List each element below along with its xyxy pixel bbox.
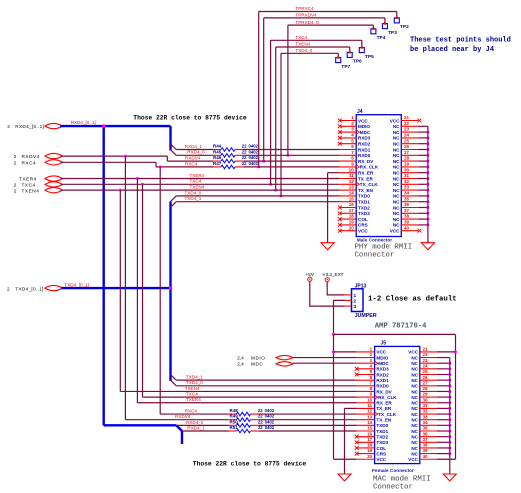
svg-text:RXC4: RXC4 (185, 161, 198, 166)
wire TXD4_0 bottom wire (176, 385, 356, 387)
wire TXER4 wire (61, 178, 340, 180)
svg-text:NC: NC (411, 372, 418, 377)
svg-text:JP13: JP13 (355, 284, 367, 290)
svg-text:1-2 Close as default: 1-2 Close as default (368, 296, 457, 304)
J4 pin 10 stub (340, 172, 356, 174)
J5 pin 30 stub (420, 402, 437, 404)
J5 pin 29 junction (448, 396, 451, 399)
svg-text:RXC4: RXC4 (22, 160, 37, 165)
J4 pin 29 stub (401, 166, 418, 168)
J5 pin 7 stub (357, 385, 375, 387)
J5 pin 11 stub (357, 407, 375, 409)
svg-text:38: 38 (404, 214, 410, 219)
wire RXDV4 bottom lead-out (251, 419, 260, 421)
wire TXD4_1 top wire (176, 201, 339, 203)
wire TXD4_1 bottom wire (176, 379, 356, 381)
bus A bottom end (181, 431, 183, 444)
svg-text:J4: J4 (357, 109, 363, 115)
resistor R46 (221, 159, 235, 163)
junction VCC at J5 pin1 (332, 350, 335, 353)
J5 pin 23 stub (420, 362, 437, 364)
svg-text:RXD4_0: RXD4_0 (186, 420, 204, 425)
svg-text:25: 25 (423, 369, 429, 374)
svg-text:RXD1: RXD1 (376, 378, 389, 383)
svg-text:VCC: VCC (408, 457, 418, 462)
bus RXD4 horizontal (60, 125, 170, 127)
J4 pin 5 no-connect X (338, 142, 342, 146)
svg-text:2: 2 (14, 182, 17, 187)
J4 pin 19 no-connect X (338, 223, 342, 227)
svg-text:22: 22 (258, 419, 263, 424)
wire TXC4 testpoint horizontal (271, 39, 362, 41)
junction TPRXDV4-RXDV4 (262, 160, 265, 163)
port 2,4 MDIO (276, 355, 293, 359)
svg-text:TXD4_[0..1]: TXD4_[0..1] (15, 286, 43, 291)
J4 pin 6 stub (340, 149, 356, 151)
port 2 RXD4_[0..1] (45, 123, 63, 128)
J4 pin 24 stub (401, 137, 418, 139)
svg-text:27: 27 (404, 150, 410, 155)
svg-text:19: 19 (367, 448, 373, 453)
svg-text:11: 11 (367, 403, 372, 408)
wire RXC4 bottom lead-out (251, 413, 260, 415)
wire J5 NC rail (449, 358, 451, 474)
power +5V (308, 277, 312, 281)
J4 pin 30 wire (418, 172, 428, 174)
svg-text:MDC: MDC (360, 130, 371, 135)
svg-text:38: 38 (423, 443, 429, 448)
wire VCC to J5 pin20 (334, 458, 357, 460)
svg-text:NC: NC (411, 418, 418, 423)
svg-text:23: 23 (404, 127, 410, 132)
svg-text:TXD0: TXD0 (358, 194, 370, 199)
svg-text:10: 10 (349, 167, 355, 172)
J5 pin 19 no-connect X (355, 452, 359, 456)
J4 pin 11 stub (340, 178, 356, 180)
bus TXD4 horizontal (61, 287, 170, 289)
svg-text:NC: NC (393, 147, 400, 152)
wire RXD4_0 bottom lead-out (251, 424, 260, 426)
wire TXEN4 wire (61, 189, 340, 191)
svg-text:25: 25 (404, 138, 410, 143)
wire RXC4 wire right (244, 166, 340, 168)
JP13 pin 3 stub (345, 305, 352, 307)
J4 pin 27 wire (418, 154, 428, 156)
bus entry TXD4_1 bottom (171, 375, 177, 381)
J5 pin 24 junction (448, 367, 451, 370)
J5 pin 28 stub (420, 390, 437, 392)
J5 pin 20 stub (357, 458, 375, 460)
svg-text:NC: NC (411, 361, 418, 366)
J4 pin 40 no-connect X (418, 229, 422, 233)
svg-text:NC: NC (393, 188, 400, 193)
svg-text:TXD3: TXD3 (376, 440, 388, 445)
J4 pin 2 no-connect X (338, 124, 342, 128)
svg-text:NC: NC (393, 176, 400, 181)
J4 pin 21 stub (401, 120, 418, 122)
svg-text:TX_CLK: TX_CLK (378, 412, 397, 417)
svg-text:24: 24 (404, 133, 410, 138)
J4 pin 35 wire (418, 201, 428, 203)
svg-text:39: 39 (423, 448, 429, 453)
svg-text:NC: NC (411, 423, 418, 428)
wire TPRXD4_0 horizontal (288, 24, 374, 26)
J5 pin 29 wire (437, 396, 450, 398)
J4 pin 36 stub (401, 207, 418, 209)
svg-text:AMP 787170-4: AMP 787170-4 (375, 323, 427, 331)
svg-text:32: 32 (423, 409, 429, 414)
J5 pin 33 junction (448, 418, 451, 421)
J4 pin 23 wire (418, 131, 428, 133)
svg-text:31: 31 (404, 173, 410, 178)
svg-text:21: 21 (423, 347, 429, 352)
J5 pin 16 no-connect X (355, 435, 359, 439)
J4 pin 31 stub (401, 178, 418, 180)
J4 pin 33 junction (426, 189, 429, 192)
svg-text:RXD4_1: RXD4_1 (187, 425, 205, 430)
J4 pin 33 wire (418, 189, 428, 191)
J5 pin 24 stub (420, 368, 437, 370)
junction bus A at RXD4 bus (102, 124, 105, 127)
svg-text:26: 26 (404, 144, 410, 149)
wire RXC4 lead-in (213, 166, 221, 168)
svg-text:TP7: TP7 (341, 64, 350, 70)
svg-text:31: 31 (423, 403, 429, 408)
J4 pin 16 no-connect X (338, 206, 342, 210)
svg-text:TXEN4: TXEN4 (190, 185, 205, 190)
J5 pin 6 stub (357, 379, 375, 381)
svg-text:RXD1: RXD1 (358, 147, 371, 152)
test point TP4 (371, 29, 376, 34)
svg-text:37: 37 (404, 208, 410, 213)
J5 pin 31 junction (448, 407, 451, 410)
J5 pin 17 no-connect X (355, 440, 359, 444)
wire RXDV4 wire left (167, 160, 213, 162)
svg-text:24: 24 (423, 363, 429, 368)
J4 pin 20 stub (340, 230, 356, 232)
wire TXEN4 vertical to TXEN4 row (275, 47, 277, 190)
wire RXD4_1 wire left (176, 149, 213, 151)
power V3.3_EXT (325, 278, 329, 282)
J4 pin 23 junction (426, 131, 429, 134)
J4 pin 18 no-connect X (338, 217, 342, 221)
J5 pin 27 junction (448, 384, 451, 387)
wire drop into TP2 (396, 12, 398, 19)
svg-text:TXD1: TXD1 (358, 200, 370, 205)
J5 pin 2 stub (357, 357, 375, 359)
J4 pin 39 wire (418, 224, 428, 226)
J5 pin 36 junction (448, 435, 451, 438)
svg-text:NC: NC (393, 142, 400, 147)
svg-text:27: 27 (423, 380, 429, 385)
bus A bottom horizontal (104, 424, 177, 426)
svg-text:RX_ER: RX_ER (358, 171, 374, 176)
svg-text:J5: J5 (381, 341, 387, 347)
J4 pin 16 stub (340, 207, 356, 209)
svg-text:R46: R46 (213, 155, 222, 160)
svg-text:2,4: 2,4 (237, 355, 244, 360)
svg-text:Male Connector: Male Connector (357, 237, 392, 242)
J4 pin 34 junction (426, 194, 429, 197)
J5 pin 28 wire (437, 390, 450, 392)
wire drop into TP4 (372, 25, 374, 30)
svg-text:RXD4_1: RXD4_1 (185, 144, 203, 149)
wire RXD4_1 bottom lead-out (251, 430, 260, 432)
J5 pin 37 junction (448, 441, 451, 444)
wire drop into TP5 (361, 40, 363, 48)
svg-text:CRS: CRS (358, 223, 368, 228)
J5 pin 21 stub (420, 351, 437, 353)
wire RXD4_1 wire right (244, 149, 340, 151)
J5 pin 40 stub (420, 458, 437, 460)
svg-text:JUMPER: JUMPER (355, 313, 377, 319)
svg-text:TXD1: TXD1 (376, 429, 388, 434)
svg-text:NC: NC (393, 130, 400, 135)
wire RXD4_1 lead-out (235, 149, 244, 151)
wire RXD4_0 wire left (176, 154, 213, 156)
svg-text:TXD4_[0..1]: TXD4_[0..1] (64, 283, 89, 288)
J4 pin 36 junction (426, 206, 429, 209)
svg-text:22: 22 (242, 155, 247, 160)
J5 pin 23 junction (448, 362, 451, 365)
svg-text:Female Connector: Female Connector (372, 468, 414, 474)
test point TP3 (382, 24, 387, 29)
J4 pin 3 stub (340, 131, 356, 133)
wire TXC4 bottom wire (143, 396, 357, 398)
wire VCC rail right vertical (455, 334, 457, 459)
svg-text:2: 2 (14, 189, 17, 194)
svg-text:20: 20 (367, 454, 373, 459)
svg-text:RX_CLK: RX_CLK (378, 395, 397, 400)
J4 pin 22 stub (401, 125, 418, 127)
wire RXD4_1 bottom wire right (259, 430, 357, 432)
svg-text:RXDV4: RXDV4 (175, 414, 191, 419)
J4 pin 18 stub (340, 218, 356, 220)
svg-text:28: 28 (404, 156, 410, 161)
svg-text:15: 15 (367, 426, 373, 431)
wire RXC4 wire left (156, 166, 213, 168)
wire V3.3_EXT to JP13 pin1 (327, 282, 344, 295)
J5 pin 29 stub (420, 396, 437, 398)
svg-text:RXC4: RXC4 (185, 408, 198, 413)
J5 pin 15 stub (357, 430, 375, 432)
connector J5 body (375, 346, 420, 463)
wire MDIO (293, 357, 357, 359)
wire TXD4_0 vertical to TXD4_0 row (280, 53, 282, 196)
bus entry RXD4_1 top (171, 144, 177, 150)
J5 pin 8 stub (357, 390, 375, 392)
svg-text:RXD2: RXD2 (358, 142, 371, 147)
svg-text:1: 1 (354, 293, 357, 299)
J5 pin 35 wire (437, 430, 450, 432)
junction TPRXD4_0-RXD4_0 (286, 154, 289, 157)
svg-text:NC: NC (393, 165, 400, 170)
J4 pin 21 no-connect X (418, 119, 422, 123)
J5 pin 35 stub (420, 430, 437, 432)
svg-text:TPRXC4: TPRXC4 (295, 6, 314, 11)
svg-text:10: 10 (367, 397, 373, 402)
svg-text:MDC: MDC (378, 361, 389, 366)
bus B vertical upper segment (169, 126, 171, 150)
svg-text:RX_DV: RX_DV (358, 159, 374, 164)
junction VCC at J5 pin21 (454, 350, 457, 353)
svg-text:0402: 0402 (249, 149, 259, 154)
J4 pin 9 stub (340, 166, 356, 168)
J4 pin 25 stub (401, 143, 418, 145)
svg-text:NC: NC (393, 211, 400, 216)
J4 pin 22 wire (418, 125, 428, 127)
svg-text:TPRXD4_0: TPRXD4_0 (295, 20, 319, 25)
svg-text:TXC4: TXC4 (186, 392, 198, 397)
svg-text:TP3: TP3 (388, 30, 397, 36)
wire TXC4 wire (61, 183, 340, 185)
svg-text:2: 2 (7, 124, 10, 129)
svg-text:RXD0: RXD0 (376, 384, 389, 389)
wire TXER4 vertical (136, 179, 138, 403)
svg-text:VCC: VCC (408, 350, 418, 355)
wire TXEN4 testpoint horizontal (276, 46, 350, 48)
wire VCC to J5 pin1 (334, 351, 357, 353)
svg-text:22: 22 (258, 414, 263, 419)
J5 pin 38 wire (437, 447, 450, 449)
bus entry TXD4_0 top (171, 196, 177, 202)
svg-text:39: 39 (404, 220, 410, 225)
J4 pin 38 wire (418, 218, 428, 220)
wire TXC4 vertical to TXC4 row (270, 40, 272, 184)
test point TP5 (359, 48, 364, 53)
wire RXD4_1 lead-in (213, 149, 221, 151)
svg-text:14: 14 (349, 191, 355, 196)
svg-text:TXER4: TXER4 (19, 177, 37, 182)
svg-text:TXD4_1: TXD4_1 (185, 196, 202, 201)
connector J4 body (356, 115, 401, 237)
wire RX_ER to ground (328, 172, 340, 174)
svg-text:TX_ER: TX_ER (358, 176, 373, 181)
svg-text:TXD3: TXD3 (358, 211, 370, 216)
wire RXC4 jog (155, 162, 157, 167)
J5 pin 36 wire (437, 436, 450, 438)
junction TPRXC4-RXC4 (257, 165, 260, 168)
J4 pin 17 no-connect X (338, 211, 342, 215)
svg-text:22: 22 (258, 425, 263, 430)
J5 pin 32 junction (448, 413, 451, 416)
J4 pin 14 stub (340, 195, 356, 197)
svg-text:RXD3: RXD3 (376, 367, 389, 372)
J4 pin 13 stub (340, 189, 356, 191)
svg-text:36: 36 (423, 431, 429, 436)
svg-text:NC: NC (411, 406, 418, 411)
junction TXER4 down-wire (136, 177, 139, 180)
svg-text:30: 30 (423, 397, 429, 402)
jumper JP13 (352, 289, 364, 312)
J4 pin 25 wire (418, 143, 428, 145)
J5 pin 32 wire (437, 413, 450, 415)
svg-text:MDIO: MDIO (251, 355, 265, 360)
svg-text:MDIO: MDIO (358, 124, 370, 129)
svg-text:NC: NC (393, 200, 400, 205)
wire RXD4_1 bottom wire left (182, 430, 229, 432)
J5 pin 26 stub (420, 379, 437, 381)
svg-text:NC: NC (393, 194, 400, 199)
svg-text:13: 13 (349, 185, 355, 190)
J4 pin 39 stub (401, 224, 418, 226)
svg-text:TXC4: TXC4 (190, 179, 202, 184)
svg-text:Those 22R close to 8775 device: Those 22R close to 8775 device (133, 115, 247, 122)
wire +5V to JP13 pin3 (310, 281, 345, 306)
svg-text:NC: NC (411, 434, 418, 439)
J5 pin 39 junction (448, 452, 451, 455)
svg-text:TXD4_1: TXD4_1 (186, 375, 203, 380)
port 2 RXC4 (45, 160, 63, 165)
J4 pin 9 clock mark (356, 165, 359, 169)
J5 pin 39 stub (420, 453, 437, 455)
svg-text:2: 2 (14, 160, 17, 165)
J4 pin 7 stub (340, 154, 356, 156)
resistor R49 (237, 418, 251, 422)
J5 pin 37 stub (420, 441, 437, 443)
J4 pin 35 junction (426, 200, 429, 203)
svg-text:VCC: VCC (376, 457, 386, 462)
J4 pin 30 stub (401, 172, 418, 174)
wire TXEN4 bottom wire (120, 390, 356, 392)
svg-text:Connector: Connector (373, 484, 413, 492)
svg-text:RXD3: RXD3 (358, 136, 371, 141)
wire RXDV4 wire right (244, 160, 340, 162)
svg-text:36: 36 (404, 202, 410, 207)
svg-text:NC: NC (393, 205, 400, 210)
svg-text:NC: NC (411, 429, 418, 434)
svg-text:3: 3 (354, 304, 357, 310)
svg-text:R48: R48 (230, 408, 239, 413)
wire drop into TP6 (349, 47, 351, 53)
svg-text:22: 22 (242, 144, 247, 149)
J4 pin 28 junction (426, 160, 429, 163)
wire RXD4_0 lead-in (213, 154, 221, 156)
J4 pin 38 junction (426, 218, 429, 221)
svg-text:RXD0: RXD0 (358, 153, 371, 158)
svg-text:22: 22 (404, 121, 410, 126)
svg-text:13: 13 (367, 414, 373, 419)
ground J5 NC rail (443, 474, 456, 481)
J5 pin 23 wire (437, 362, 450, 364)
port 2 TXD4_[0..1] (45, 285, 63, 290)
J4 pin 34 stub (401, 195, 418, 197)
J4 pin 26 stub (401, 149, 418, 151)
svg-text:29: 29 (404, 162, 410, 167)
J5 pin 19 stub (357, 453, 375, 455)
J5 pin 32 stub (420, 413, 437, 415)
svg-text:TXC4: TXC4 (22, 182, 36, 187)
wire TPRXDV4 vertical to RXDV4 row (263, 18, 265, 161)
bus A bottom diagonal (176, 425, 182, 431)
wire TXD4_0 top wire (176, 195, 339, 197)
svg-text:14: 14 (367, 420, 373, 425)
bus entry TXD4_0 bottom (171, 380, 177, 386)
svg-text:28: 28 (423, 386, 429, 391)
junction TPTXD4_0-TXD4_0 (280, 194, 283, 197)
svg-text:RXDV4: RXDV4 (185, 156, 201, 161)
J5 pin 18 stub (357, 447, 375, 449)
svg-text:RXD4_[0..1]: RXD4_[0..1] (71, 120, 96, 125)
wire drop into TP7 (337, 53, 339, 58)
wire VCC to J5 pin40 (437, 458, 456, 460)
J4 pin 19 stub (340, 224, 356, 226)
J4 pin 36 wire (418, 207, 428, 209)
svg-text:TXD0: TXD0 (376, 423, 388, 428)
svg-text:MAC mode RMII: MAC mode RMII (373, 476, 431, 484)
svg-text:TX_EN: TX_EN (358, 188, 373, 193)
J4 pin 25 junction (426, 142, 429, 145)
